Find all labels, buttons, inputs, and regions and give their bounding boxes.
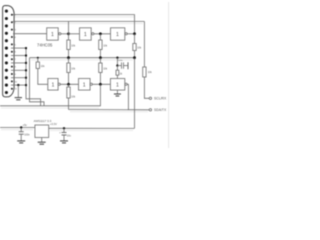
wire stub node to wire B (68, 21, 70, 33)
wire U1B out to node top2 (94, 33, 111, 35)
regulator U2 AMS1117 box (35, 125, 49, 138)
connector J1 pin holes row 2 (11, 14, 13, 90)
node junction top2 (99, 32, 102, 35)
svg-text:10u: 10u (67, 134, 72, 137)
connector J1 pin holes row 1 (5, 10, 8, 94)
op-amp U1D inverter box mid row 1 (48, 79, 58, 91)
U1C output bubble (125, 33, 127, 35)
U1F output bubble (125, 83, 127, 85)
op-amp U1E inverter box mid row 2 (79, 79, 91, 91)
svg-text:1: 1 (116, 82, 119, 88)
op-amp U1F inverter box mid row 3 (110, 79, 124, 91)
wire B pin2 to series resistor R8 (13, 20, 145, 22)
wire R6 down to U1D input (38, 69, 48, 85)
svg-text:100n: 100n (24, 134, 30, 137)
U1E output bubble (90, 83, 92, 85)
wire +3.3V output (49, 127, 135, 129)
resistor R4 mid pull node1 (68, 58, 70, 63)
svg-text:100n: 100n (118, 60, 124, 62)
resistor R9 vcc pin (116, 66, 118, 71)
node rail dot3 (116, 57, 118, 59)
wire +5V input (0, 127, 35, 129)
node ground tap dot (17, 84, 19, 86)
node rail dot2 (99, 56, 102, 59)
ground bus vertical near connector (26, 48, 41, 106)
terminal SDA/TX (149, 109, 151, 111)
op-amp U1C inverter box top row 3 (111, 28, 125, 40)
op-amp U1A inverter box top row 1 (47, 28, 59, 40)
ground regulator (41, 138, 43, 143)
wire +3.3V rail (30, 57, 135, 59)
svg-text:+3.3V: +3.3V (50, 122, 57, 126)
wire SDA line (69, 109, 150, 111)
U1A output bubble (59, 33, 61, 35)
connector J1 pin numbers (15, 15, 18, 91)
resistor R8 series SCL (143, 67, 146, 77)
svg-text:1: 1 (84, 32, 87, 38)
wire U1D out to node mid1 (60, 83, 78, 85)
svg-text:1: 1 (51, 32, 54, 38)
svg-text:SCL/RX: SCL/RX (154, 97, 167, 101)
op-amp U1B inverter box top row 2 (80, 28, 92, 40)
resistor R1 pullup node top1 (68, 34, 70, 40)
wire node to U1B input (69, 33, 80, 35)
wire C pin to U1A input (13, 33, 47, 35)
wire A pin1 to node SCL-drive (13, 15, 135, 34)
svg-text:1: 1 (52, 82, 55, 88)
connector J1 DB25 outline (3, 6, 15, 97)
capacitor C3 100n decoupling (116, 58, 118, 66)
node rail dot1 (67, 56, 70, 59)
node junction top1 (67, 32, 70, 35)
capacitor C2 10u output (63, 128, 65, 132)
wire R8 to SCL terminal (144, 77, 149, 98)
svg-text:1: 1 (83, 82, 86, 88)
wire U1E out to node mid2 (92, 83, 110, 85)
node +5V dot (20, 126, 22, 128)
wire 3.3V feed loop right side (134, 58, 136, 129)
terminal SCL/RX (149, 97, 151, 99)
ground C2 (60, 140, 68, 142)
node junction top3 (133, 32, 136, 35)
wire rail left drop (30, 58, 45, 106)
wire segment B down to R8 (143, 21, 145, 67)
resistor R7 series SDA (68, 84, 70, 87)
resistor R6 input pull (37, 58, 39, 62)
svg-text:+5v: +5v (23, 123, 28, 127)
ground under connector (17, 85, 19, 98)
wire mid node2 down to left (0, 84, 100, 106)
U1B output bubble (92, 33, 94, 35)
connector ground pin stubs to bus (11, 47, 26, 49)
node output dot (63, 127, 65, 129)
resistor R2 pullup node top2 (99, 34, 101, 40)
svg-text:1: 1 (116, 32, 119, 38)
svg-text:AMS1117 3.3: AMS1117 3.3 (34, 119, 52, 123)
wire U1A out to node J1n (61, 33, 69, 35)
resistor R5 mid pull node2 (99, 58, 101, 63)
U1D output bubble (58, 83, 60, 85)
ground under U1F (116, 90, 118, 94)
edge artifact line (168, 2, 170, 148)
capacitor C1 100n input (20, 128, 22, 132)
ground C1 (17, 140, 25, 142)
resistor R3 pullup node top3 (134, 34, 136, 44)
svg-text:74HC05: 74HC05 (37, 42, 53, 47)
wire ghost echoes (jpeg artifacts) (1, 17, 148, 131)
wire U1F out stub down to SDA (127, 84, 128, 109)
node rail dot4 (133, 56, 136, 59)
node rail dot5 (37, 57, 39, 59)
node junction mid2 (99, 83, 102, 86)
node junction mid1 (67, 83, 70, 86)
svg-text:SDA/TX: SDA/TX (154, 108, 167, 112)
node dots on ground bus (25, 47, 27, 86)
wire U1C out to node top3 (127, 33, 134, 35)
